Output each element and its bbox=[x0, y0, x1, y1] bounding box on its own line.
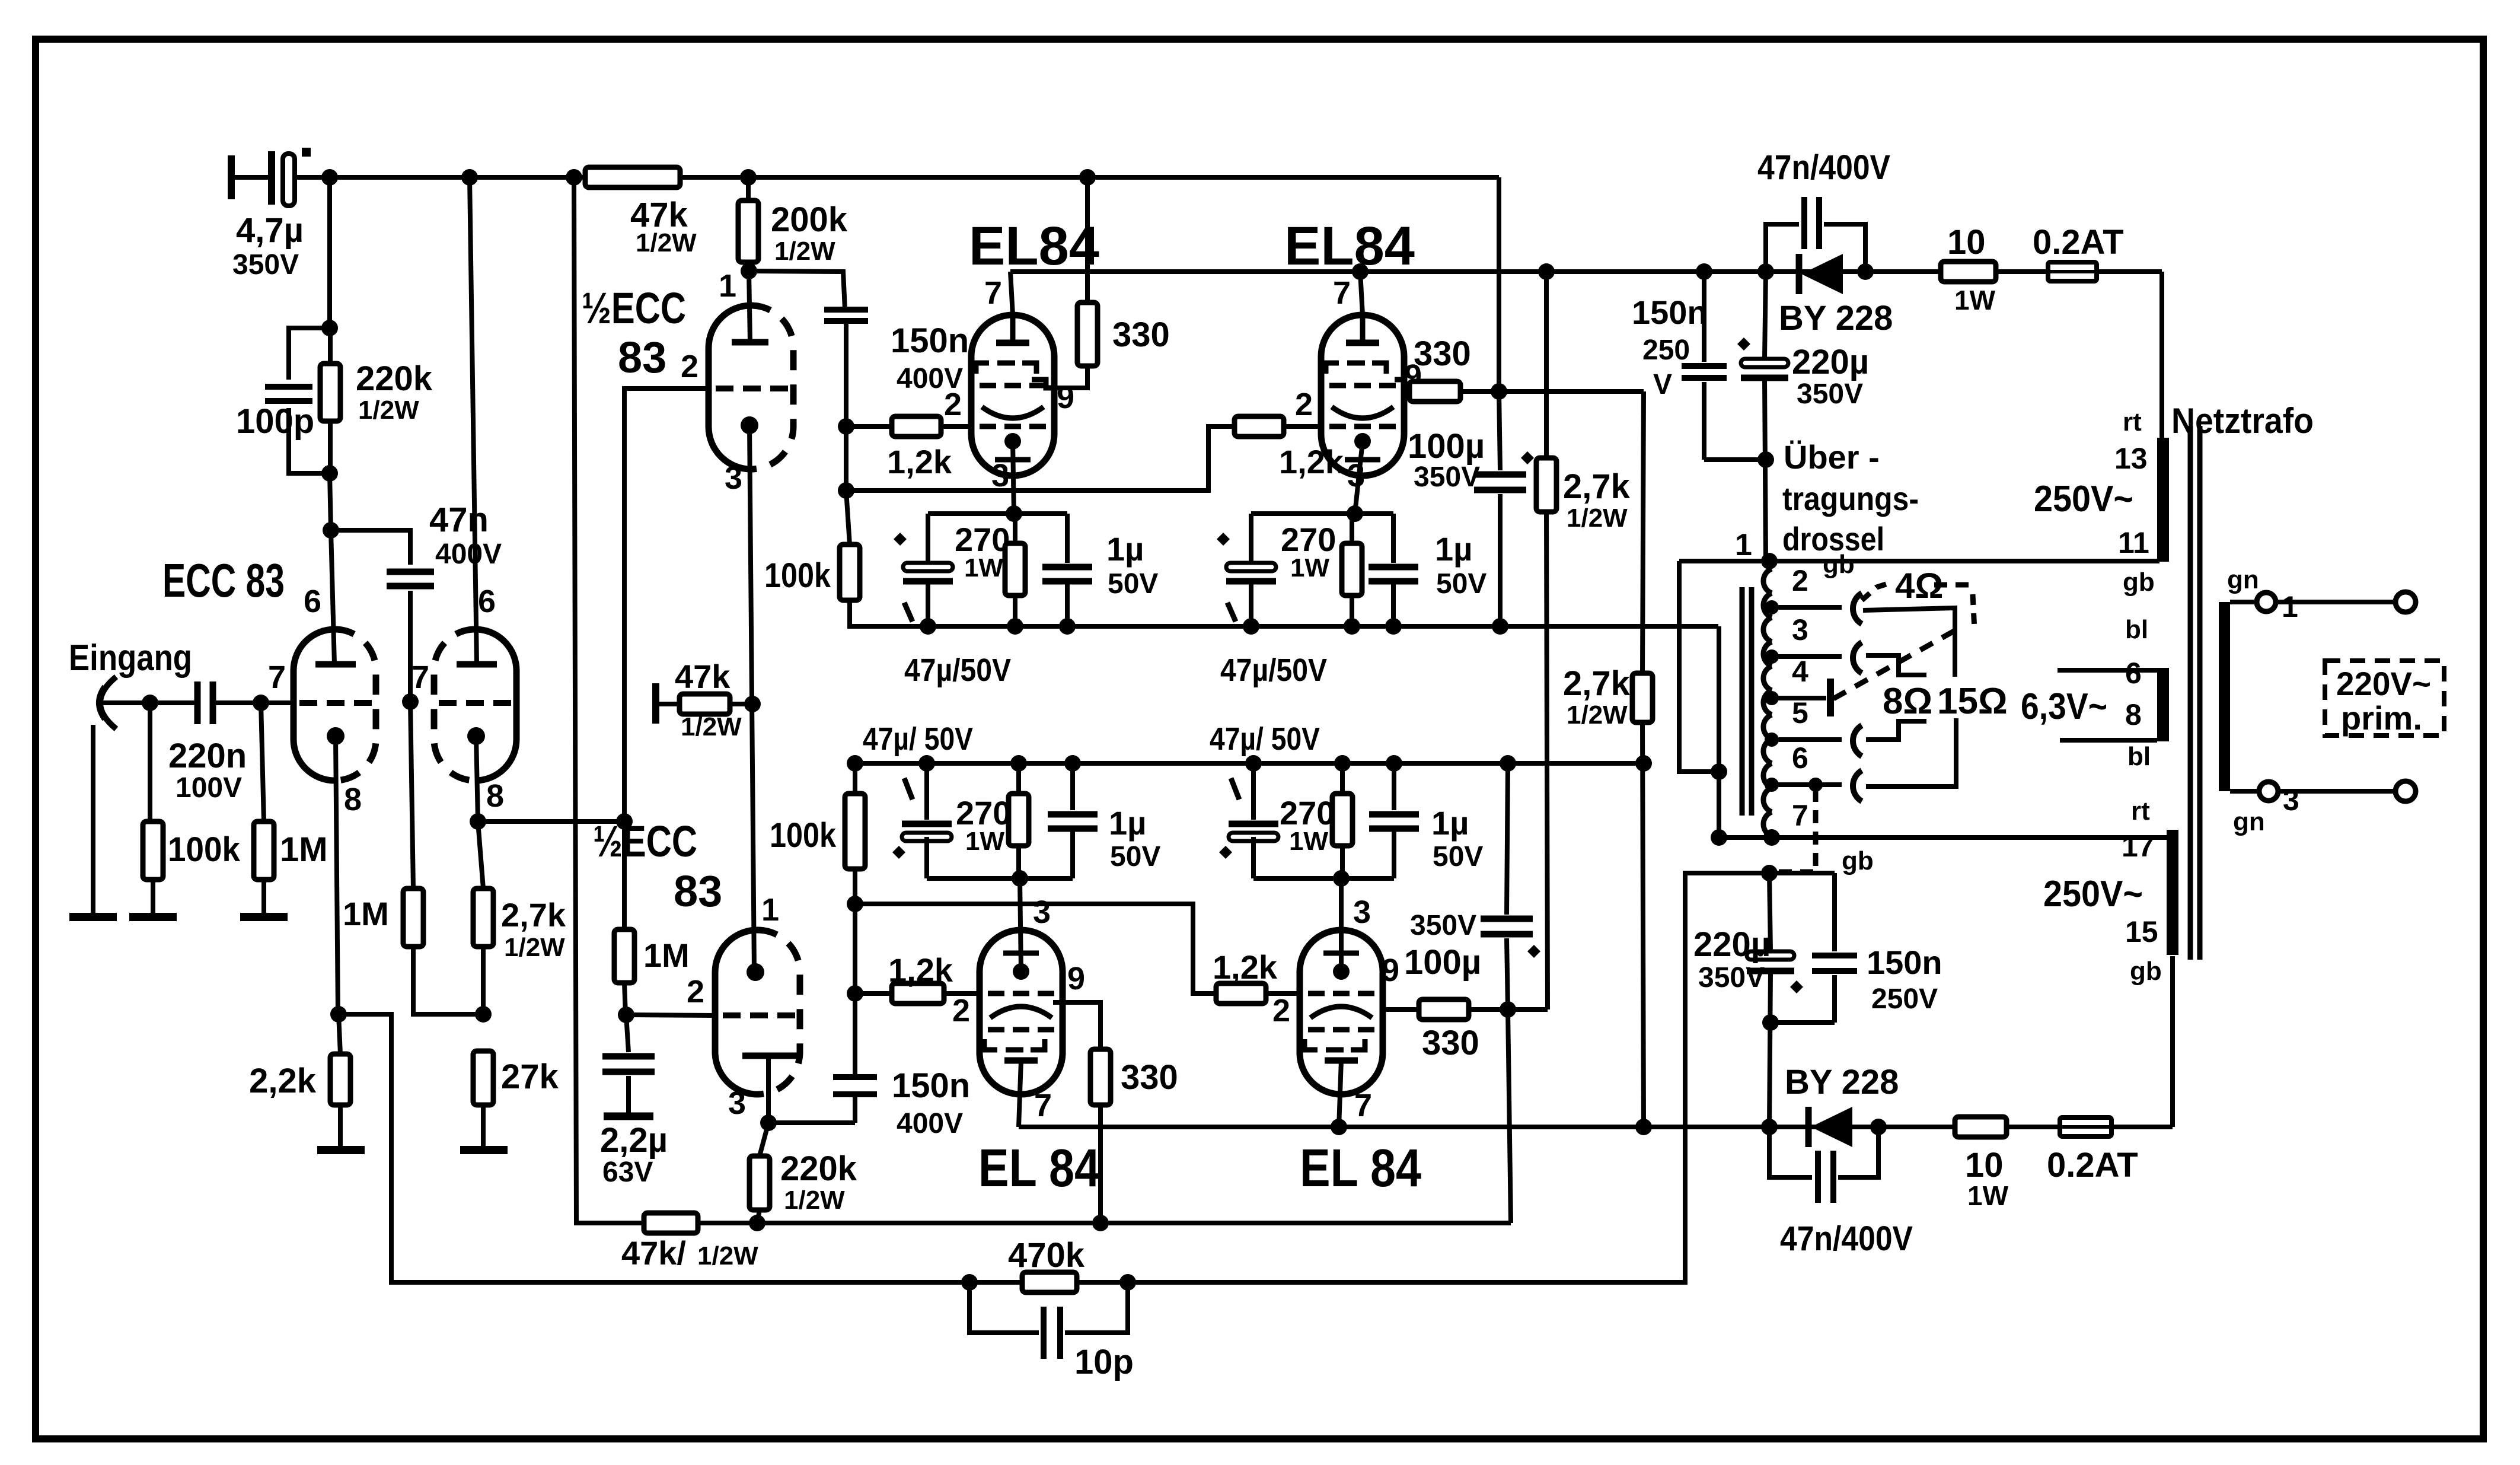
terminal 1 label bbox=[1735, 528, 1752, 562]
resistor 10 1W bbox=[1941, 223, 1996, 316]
wire input ground stem bbox=[91, 725, 95, 917]
wire anode pin1 bbox=[749, 271, 750, 342]
svg-text:1/2W: 1/2W bbox=[784, 1186, 845, 1215]
resistor 100k (splitter upper) bbox=[764, 491, 894, 626]
svg-text:EL84: EL84 bbox=[1284, 216, 1415, 276]
grid dashes EL84 II bbox=[1329, 424, 1396, 429]
svg-text:15Ω: 15Ω bbox=[1937, 681, 2008, 722]
label 47u/50V (EL84 IV) bbox=[1210, 721, 1320, 757]
node bbox=[321, 169, 338, 186]
svg-text:½ECC: ½ECC bbox=[582, 284, 686, 333]
screen hooks EL84 II bbox=[1326, 363, 1386, 374]
wire line to lower winding bbox=[1718, 835, 2168, 840]
wire choke bottom bbox=[1763, 829, 1780, 846]
wire heater stub bbox=[2058, 668, 2157, 673]
capacitor 2.2u/63V bbox=[600, 1015, 668, 1188]
pin 7 label bbox=[984, 275, 1002, 311]
svg-text:10: 10 bbox=[1947, 223, 1986, 262]
capacitor 47n/400V bypass (upper) bbox=[1757, 148, 1890, 272]
label 220V prim dashed box bbox=[2325, 661, 2444, 737]
svg-text:10: 10 bbox=[1965, 1146, 2004, 1184]
svg-text:9: 9 bbox=[1382, 953, 1399, 988]
resistor 1M (tail) bbox=[343, 702, 483, 1014]
node bbox=[749, 1215, 765, 1231]
pin 3 label bbox=[991, 458, 1009, 493]
wire choke top line bbox=[1679, 559, 2159, 563]
plus mark (EL84 IV) bbox=[1219, 846, 1232, 859]
capacitor 220u/350V (reservoir lower) bbox=[1693, 873, 1794, 1127]
label EL84 III bbox=[978, 1139, 1100, 1198]
speaker socket tap5 bbox=[1853, 725, 1862, 756]
svg-text:bl: bl bbox=[2125, 615, 2148, 644]
pin 7 label bbox=[268, 660, 286, 695]
svg-text:2,7k: 2,7k bbox=[1563, 467, 1631, 506]
label EL84 II bbox=[1284, 216, 1415, 276]
svg-text:250V~: 250V~ bbox=[2043, 874, 2143, 915]
speaker socket tap6 bbox=[1853, 770, 1862, 801]
node bbox=[1119, 1274, 1136, 1291]
pin 9 label bbox=[1067, 961, 1085, 996]
label 8 bbox=[2125, 698, 2142, 731]
fuse 0.2AT bbox=[2033, 223, 2124, 281]
tube envelope EL84 III bbox=[980, 930, 1063, 1094]
svg-text:270: 270 bbox=[955, 521, 1010, 558]
wire bbox=[844, 426, 848, 491]
wire B+ dropper feed bbox=[574, 177, 644, 1223]
svg-text:1W: 1W bbox=[1967, 1180, 2009, 1211]
node (EL84 IV) bbox=[1333, 870, 1350, 887]
svg-text:2: 2 bbox=[944, 387, 962, 422]
wire rectifier line lower bbox=[1769, 1125, 2173, 1129]
label 11 bbox=[2118, 526, 2149, 559]
pin 7 label bbox=[1034, 1088, 1052, 1123]
pin 2 label bbox=[944, 387, 962, 422]
resistor 330 (screen EL84 II) bbox=[1395, 335, 1499, 402]
node bbox=[961, 1274, 978, 1291]
wire cross link lower bbox=[855, 904, 1216, 993]
svg-text:2: 2 bbox=[1792, 564, 1808, 597]
svg-text:7: 7 bbox=[1792, 799, 1808, 832]
svg-text:3: 3 bbox=[1353, 894, 1371, 930]
node bbox=[1857, 263, 1874, 280]
svg-text:gn: gn bbox=[2227, 565, 2259, 594]
resistor 220k 1/2W bbox=[320, 328, 433, 473]
wire lower screen line B bbox=[1508, 1009, 1511, 1223]
wire anode pin6 to rail bbox=[470, 177, 477, 664]
winding 6.3V bbox=[2157, 668, 2169, 741]
resistor 220k 1/2W (lower) bbox=[749, 1123, 857, 1223]
node bbox=[1808, 778, 1823, 792]
capacitor 1u/50V (EL84 I) bbox=[1042, 514, 1158, 626]
svg-text:BY 228: BY 228 bbox=[1785, 1063, 1899, 1101]
capacitor 10p bridge bbox=[969, 1282, 1134, 1381]
svg-text:6,3V~: 6,3V~ bbox=[2021, 686, 2107, 727]
node bbox=[323, 522, 339, 539]
node (EL84 II) bbox=[1385, 618, 1402, 635]
svg-text:rt: rt bbox=[2123, 407, 2142, 437]
label 17 bbox=[2122, 830, 2155, 863]
resistor 2.7k 1/2W (upper) bbox=[1536, 272, 1631, 1009]
node bbox=[1500, 755, 1516, 772]
resistor 270 1W (EL84 III) bbox=[956, 763, 1029, 878]
wire bbox=[844, 321, 848, 426]
wire cathode stem I bbox=[1013, 441, 1014, 514]
svg-text:1: 1 bbox=[2282, 590, 2298, 623]
resistor 1M (lower grid) bbox=[614, 821, 690, 1015]
wire grid bbox=[626, 1015, 715, 1015]
capacitor 47u/50V (EL84 II) bbox=[1226, 514, 1276, 626]
cathode EL84 IV bbox=[1323, 953, 1359, 980]
resistor 330 (screen EL84 IV) bbox=[1383, 999, 1508, 1062]
label gb (tap2) bbox=[1823, 550, 1855, 579]
svg-text:8: 8 bbox=[2125, 698, 2142, 731]
node bbox=[566, 169, 582, 186]
svg-text:330: 330 bbox=[1414, 335, 1471, 373]
node (EL84 IV) bbox=[1386, 755, 1402, 772]
svg-text:½ECC: ½ECC bbox=[593, 817, 697, 866]
wire bbox=[853, 993, 857, 1077]
svg-text:250: 250 bbox=[1642, 335, 1690, 366]
svg-text:1µ: 1µ bbox=[1106, 530, 1144, 568]
svg-text:63V: 63V bbox=[602, 1157, 653, 1188]
wire bbox=[853, 1094, 857, 1123]
svg-text:3: 3 bbox=[1033, 894, 1051, 930]
cathode RC bracket (EL84 III) bbox=[927, 876, 1073, 881]
choke tap 3 bbox=[1765, 613, 1842, 664]
wire bbox=[2276, 600, 2395, 604]
terminal circle bbox=[2395, 592, 2416, 612]
plus mark bbox=[1737, 337, 1750, 351]
svg-text:50V: 50V bbox=[1108, 568, 1158, 600]
node (EL84 I) bbox=[1006, 505, 1022, 522]
resistor 100k (input) bbox=[143, 703, 241, 917]
grid dashes EL84 IV bbox=[1308, 991, 1374, 996]
label ECC83 bbox=[162, 554, 285, 607]
node bbox=[1711, 829, 1727, 846]
dashed 8/15 select bbox=[1833, 630, 1956, 699]
label 47u/50V (EL84 I) bbox=[904, 652, 1011, 688]
cathode dot bbox=[467, 727, 485, 745]
label EL84 IV bbox=[1300, 1139, 1421, 1198]
wire cathode bus bbox=[478, 819, 626, 824]
node (EL84 II) bbox=[1243, 618, 1259, 635]
pin 9 label bbox=[1382, 953, 1399, 988]
node (EL84 IV) bbox=[1245, 755, 1262, 772]
node bbox=[321, 465, 338, 482]
capacitor 150n/250V (lower) bbox=[1769, 873, 1942, 1023]
label bl bbox=[2127, 742, 2151, 771]
svg-text:1,2k: 1,2k bbox=[1213, 948, 1278, 986]
winding 250V upper bbox=[2157, 438, 2169, 562]
polarity tick (EL84 II) bbox=[1227, 603, 1236, 622]
svg-text:1W: 1W bbox=[1954, 285, 1996, 316]
capacitor 150n/250V bbox=[1632, 272, 1727, 460]
wire cathode stem III bbox=[1020, 878, 1021, 972]
label gb bbox=[2130, 957, 2162, 986]
wire anode out bbox=[768, 1120, 855, 1125]
wire B+ top rail bbox=[296, 175, 1499, 180]
label 15 bbox=[2125, 915, 2158, 948]
resistor 1.2k (g1 stop EL84 IV) bbox=[1213, 948, 1300, 1004]
beam electrode EL84 II bbox=[1332, 407, 1393, 418]
speaker socket tap3 bbox=[1853, 642, 1862, 673]
plus mark bbox=[302, 148, 311, 157]
svg-text:1µ: 1µ bbox=[1431, 804, 1469, 842]
anode plate bbox=[732, 339, 768, 346]
tube EL84 II envelope EL84 II bbox=[1321, 315, 1404, 476]
tube envelope EL84 IV bbox=[1300, 930, 1383, 1094]
terminal circle bbox=[2395, 781, 2416, 801]
node (EL84 I) bbox=[1059, 618, 1076, 635]
wire cathode bbox=[336, 736, 338, 1014]
svg-text:330: 330 bbox=[1422, 1024, 1479, 1062]
node bbox=[1870, 1119, 1887, 1135]
svg-text:8: 8 bbox=[486, 778, 504, 814]
svg-text:330: 330 bbox=[1121, 1058, 1178, 1097]
svg-text:gb: gb bbox=[2123, 568, 2155, 597]
node bbox=[1092, 1215, 1109, 1231]
node bbox=[847, 985, 863, 1002]
ground bbox=[240, 913, 288, 921]
svg-text:1µ: 1µ bbox=[1109, 804, 1146, 842]
svg-text:2: 2 bbox=[952, 993, 970, 1028]
node bbox=[475, 1006, 492, 1023]
svg-text:7: 7 bbox=[1034, 1088, 1052, 1123]
svg-text:1µ: 1µ bbox=[1435, 530, 1472, 568]
resistor 1.2k (g1 stop EL84 III) bbox=[855, 951, 977, 1004]
svg-text:47µ/ 50V: 47µ/ 50V bbox=[863, 721, 973, 757]
svg-text:2,2k: 2,2k bbox=[249, 1062, 317, 1100]
svg-text:2,7k: 2,7k bbox=[1563, 664, 1631, 703]
wire join bbox=[1762, 1014, 1835, 1031]
svg-text:350V: 350V bbox=[1797, 378, 1863, 410]
node (EL84 II) bbox=[1347, 505, 1363, 522]
capacitor 150n/400V (lower coupling) bbox=[833, 1066, 970, 1139]
node lower screen bbox=[1500, 1001, 1516, 1018]
pin 2 label bbox=[681, 349, 698, 384]
svg-text:1/2W: 1/2W bbox=[697, 1241, 758, 1270]
resistor 200k 1/2W (anode load) bbox=[738, 177, 848, 271]
resistor 27k bbox=[473, 1051, 559, 1150]
wire anode line bbox=[1010, 269, 2162, 274]
wire input bbox=[102, 700, 197, 705]
wire 4 ohm branch bbox=[1863, 608, 1955, 677]
svg-text:rt: rt bbox=[2131, 797, 2150, 826]
resistor 470k bbox=[1008, 1236, 1085, 1292]
triode ECC83c envelope bbox=[709, 305, 793, 469]
diode BY228 (lower) bbox=[1785, 1063, 1899, 1147]
svg-text:1/2W: 1/2W bbox=[358, 396, 419, 425]
node bbox=[1635, 755, 1652, 772]
cathode RC bracket (EL84 II) bbox=[1251, 511, 1393, 516]
node bbox=[847, 755, 863, 772]
wire 47n to grid node bbox=[408, 591, 413, 702]
svg-text:EL84: EL84 bbox=[969, 216, 1099, 276]
svg-text:1W: 1W bbox=[965, 827, 1004, 856]
node bbox=[1079, 169, 1096, 186]
svg-text:7: 7 bbox=[268, 660, 286, 695]
svg-text:6: 6 bbox=[478, 584, 496, 619]
capacitor 1u/50V (EL84 IV) bbox=[1369, 763, 1483, 878]
resistor 270 1W (EL84 IV) bbox=[1280, 763, 1352, 878]
node bbox=[1635, 1119, 1652, 1135]
pin 6 label bbox=[304, 584, 321, 619]
wire bbox=[213, 700, 294, 705]
svg-text:350V: 350V bbox=[1410, 910, 1476, 941]
node (EL84 I) bbox=[920, 618, 936, 635]
capacitor 150n/400V (upper coupling) bbox=[824, 310, 969, 394]
wire ground bus upper bbox=[850, 624, 1718, 629]
node bbox=[618, 1007, 634, 1023]
wire cross link upper bbox=[846, 426, 1235, 491]
svg-text:100V: 100V bbox=[176, 772, 242, 804]
svg-text:7: 7 bbox=[1354, 1088, 1372, 1123]
wire 8 ohm hook lower bbox=[1866, 721, 1926, 740]
svg-text:83: 83 bbox=[618, 333, 666, 382]
cathode RC bracket (EL84 I) bbox=[928, 511, 1067, 516]
svg-text:47n/400V: 47n/400V bbox=[1757, 148, 1890, 187]
wire ground bus drop bbox=[1717, 626, 1721, 837]
label rt bbox=[2131, 797, 2150, 826]
svg-text:1/2W: 1/2W bbox=[1567, 504, 1628, 533]
svg-text:83: 83 bbox=[674, 867, 722, 916]
triode ECC83d envelope bbox=[715, 930, 800, 1094]
screen dashes EL84 IV bbox=[1308, 1027, 1374, 1033]
g3 electrode EL84 I bbox=[996, 315, 1029, 343]
tube EL84 I envelope EL84 I bbox=[971, 315, 1054, 476]
svg-text:1/2W: 1/2W bbox=[1567, 700, 1628, 730]
label Netztrafo bbox=[2171, 401, 2314, 441]
wire bbox=[698, 1221, 757, 1225]
svg-text:gb: gb bbox=[1823, 550, 1855, 579]
screen hooks EL84 I bbox=[976, 363, 1036, 374]
svg-text:47k/: 47k/ bbox=[621, 1234, 686, 1272]
node bbox=[1491, 383, 1507, 400]
svg-text:1M: 1M bbox=[280, 830, 328, 869]
svg-text:1,2k: 1,2k bbox=[888, 951, 953, 989]
svg-text:7: 7 bbox=[412, 660, 429, 695]
resistor 2.2k (cathode) bbox=[249, 1014, 350, 1150]
svg-text:1/2W: 1/2W bbox=[774, 237, 835, 266]
node bbox=[1761, 1119, 1778, 1135]
svg-text:3: 3 bbox=[1792, 613, 1808, 646]
cathode EL84 III bbox=[1003, 953, 1039, 980]
svg-text:150n: 150n bbox=[891, 321, 969, 360]
resistor 270 1W (EL84 I) bbox=[955, 514, 1025, 626]
svg-text:bl: bl bbox=[2127, 742, 2151, 771]
plus mark (EL84 III) bbox=[892, 846, 905, 859]
node bbox=[838, 418, 854, 435]
dashed 4 ohm link bbox=[1862, 566, 1974, 630]
svg-text:3: 3 bbox=[2283, 784, 2299, 817]
pin 1 label bbox=[719, 268, 736, 304]
svg-text:5: 5 bbox=[1792, 696, 1808, 730]
node bbox=[1757, 263, 1774, 280]
svg-text:150n: 150n bbox=[1632, 294, 1708, 331]
screen dashes EL84 III bbox=[988, 1027, 1054, 1033]
g3 electrode EL84 II bbox=[1346, 315, 1379, 343]
wire to lower winding bbox=[2170, 956, 2175, 1127]
pin 7 label bbox=[412, 660, 429, 695]
svg-text:47k: 47k bbox=[675, 658, 731, 695]
pin 9 label bbox=[1404, 358, 1422, 394]
transformer core bbox=[2190, 426, 2200, 960]
resistor 330 (screen EL84 III) bbox=[1053, 1002, 1178, 1223]
capacitor C 4.7u/350V (electrolytic) bbox=[232, 151, 304, 281]
svg-text:350V: 350V bbox=[1698, 962, 1765, 993]
capacitor 100u/350V (screen filter upper) bbox=[1408, 391, 1526, 626]
ground bbox=[460, 1146, 508, 1154]
capacitor 47n/400V bypass (lower) bbox=[1769, 1127, 1913, 1258]
resistor 330 (screen EL84 I) bbox=[1054, 177, 1170, 388]
node bbox=[760, 1114, 777, 1131]
node bbox=[740, 169, 757, 186]
node bbox=[741, 263, 757, 279]
svg-text:0.2AT: 0.2AT bbox=[2047, 1146, 2138, 1184]
dashed gb link lower bbox=[1775, 789, 1874, 875]
wire bbox=[231, 175, 268, 180]
svg-text:150n: 150n bbox=[1867, 944, 1942, 981]
node bbox=[253, 695, 269, 711]
capacitor 100u/350V (screen filter lower) bbox=[1404, 763, 1533, 1009]
resistor 270 1W (EL84 II) bbox=[1281, 514, 1362, 626]
svg-text:1W: 1W bbox=[1290, 553, 1329, 582]
svg-text:220k: 220k bbox=[356, 359, 433, 398]
node bbox=[461, 169, 478, 186]
node (EL84 III) bbox=[1012, 870, 1028, 887]
node bbox=[1761, 865, 1778, 881]
capacitor 1u/50V (EL84 III) bbox=[1048, 763, 1160, 878]
anode plate bbox=[742, 1056, 797, 1123]
ground bbox=[129, 913, 177, 921]
wire bbox=[2278, 789, 2395, 794]
node (EL84 IV) bbox=[1334, 755, 1351, 772]
pin 8 label bbox=[344, 782, 362, 817]
svg-text:gb: gb bbox=[1842, 846, 1874, 875]
primary terminal 1 bbox=[2227, 565, 2298, 623]
polarity tick (EL84 IV) bbox=[1231, 778, 1239, 800]
capacitor 220u/350V (reservoir upper) bbox=[1741, 272, 1869, 561]
winding 250V lower bbox=[2167, 830, 2178, 955]
svg-text:15: 15 bbox=[2125, 915, 2158, 948]
screen hooks EL84 IV bbox=[1304, 1039, 1365, 1050]
label 8 ohm bbox=[1883, 681, 1932, 722]
plus mark (EL84 I) bbox=[894, 533, 907, 546]
anode electrode EL84 IV bbox=[1325, 1058, 1358, 1064]
svg-text:4,7µ: 4,7µ bbox=[236, 211, 304, 250]
label 1/2 ECC 83 bbox=[593, 817, 722, 916]
capacitor 47u/50V (EL84 III) bbox=[902, 763, 952, 878]
svg-text:50V: 50V bbox=[1433, 841, 1483, 872]
svg-text:2: 2 bbox=[687, 974, 704, 1009]
grid dashes bbox=[716, 386, 788, 391]
plus mark bbox=[1521, 451, 1534, 464]
choke tap 4 bbox=[1765, 655, 1826, 705]
pin 2 label bbox=[952, 993, 970, 1028]
resistor 1.2k (g1 stop EL84 II) bbox=[1235, 416, 1344, 480]
fuse 0.2AT (lower) bbox=[2047, 1117, 2138, 1184]
triode ECC83b envelope bbox=[434, 629, 516, 781]
resistor 1.2k (g1 stop EL84 I) bbox=[846, 416, 972, 480]
wire pin7 stem II bbox=[1352, 263, 1369, 315]
pin 2 label bbox=[1272, 993, 1290, 1028]
label 6,3V~ bbox=[2021, 686, 2107, 727]
choke tap 2 bbox=[1765, 564, 1842, 614]
svg-text:1M: 1M bbox=[643, 937, 690, 974]
ground bbox=[69, 913, 117, 921]
svg-text:47n/400V: 47n/400V bbox=[1780, 1219, 1913, 1258]
svg-text:250V~: 250V~ bbox=[2034, 479, 2133, 520]
